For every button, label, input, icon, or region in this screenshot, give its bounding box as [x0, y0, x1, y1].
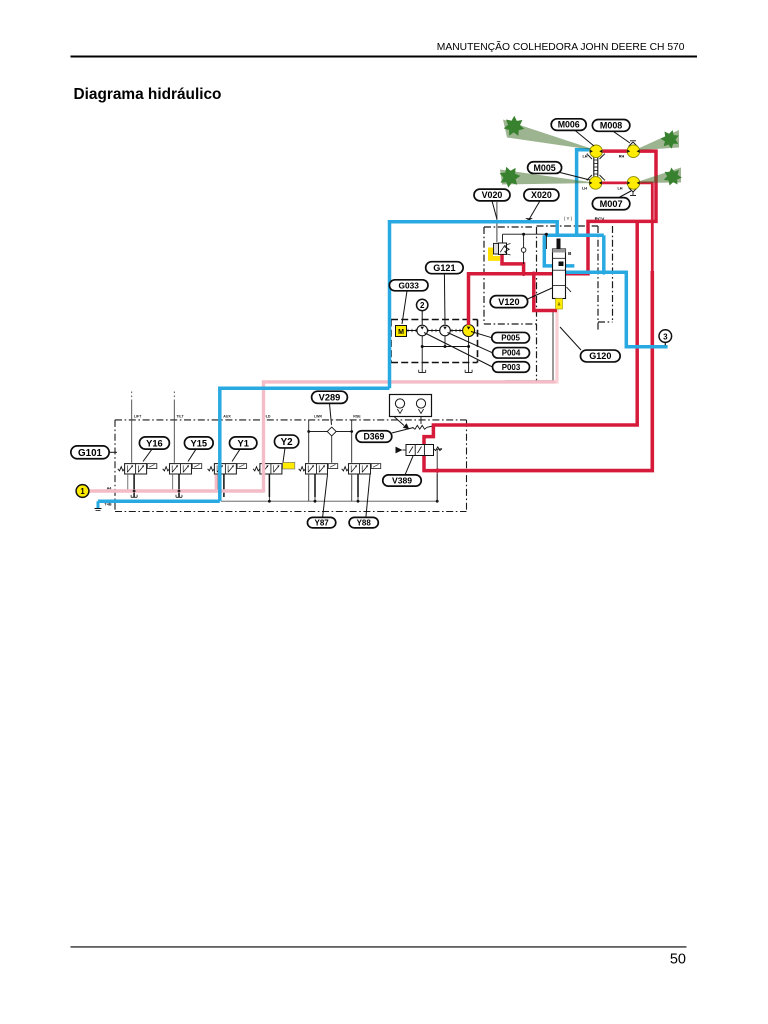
svg-text:RSE: RSE — [353, 415, 361, 419]
svg-text:M007: M007 — [600, 199, 623, 209]
svg-text:50: 50 — [670, 952, 686, 968]
svg-text:Y15: Y15 — [190, 438, 207, 448]
svg-text:V289: V289 — [319, 393, 341, 403]
svg-text:AUX: AUX — [223, 415, 231, 419]
svg-text:M005: M005 — [533, 163, 555, 173]
svg-text:M006: M006 — [558, 120, 580, 130]
svg-text:G101: G101 — [78, 448, 103, 459]
svg-text:Y2: Y2 — [281, 437, 294, 448]
svg-text:Diagrama hidráulico: Diagrama hidráulico — [74, 86, 222, 103]
svg-text:( Y ): ( Y ) — [564, 216, 573, 221]
svg-text:LH: LH — [617, 187, 622, 191]
svg-text:G120: G120 — [589, 351, 611, 361]
svg-text:TILT: TILT — [176, 415, 184, 419]
svg-text:P004: P004 — [502, 349, 521, 358]
svg-text:LH: LH — [582, 155, 587, 159]
svg-text:Y88: Y88 — [357, 518, 372, 527]
svg-text:LWR: LWR — [314, 415, 322, 419]
svg-text:V120: V120 — [498, 297, 519, 307]
svg-text:2: 2 — [420, 301, 425, 310]
svg-text:LIFT: LIFT — [134, 415, 142, 419]
svg-text:Y1: Y1 — [237, 438, 248, 448]
svg-text:P003: P003 — [502, 363, 521, 372]
svg-text:P005: P005 — [501, 334, 520, 343]
svg-text:D369: D369 — [363, 432, 384, 442]
svg-text:T4B: T4B — [104, 503, 111, 507]
svg-text:G033: G033 — [398, 280, 419, 290]
svg-text:1: 1 — [80, 487, 85, 496]
svg-text:G121: G121 — [433, 263, 455, 273]
svg-text:M: M — [398, 329, 404, 336]
svg-text:RH: RH — [619, 155, 625, 159]
svg-text:3: 3 — [663, 332, 668, 341]
svg-text:V389: V389 — [392, 476, 412, 486]
svg-text:M008: M008 — [600, 121, 622, 131]
svg-text:LH: LH — [582, 187, 587, 191]
svg-text:V020: V020 — [482, 190, 503, 200]
svg-text:Y16: Y16 — [146, 438, 163, 448]
svg-text:X020: X020 — [531, 190, 552, 200]
svg-text:MANUTENÇÃO COLHEDORA JOHN DEER: MANUTENÇÃO COLHEDORA JOHN DEERE CH 570 — [437, 40, 685, 53]
svg-text:Y87: Y87 — [315, 518, 330, 527]
